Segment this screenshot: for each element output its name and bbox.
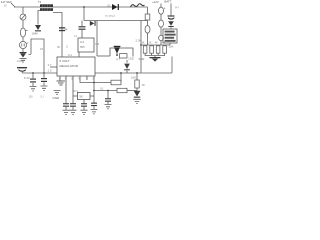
ground under D8 [20, 59, 27, 63]
svg-text:1000: 1000 [17, 60, 23, 63]
svg-text:SCR: SCR [139, 57, 145, 61]
capacitor C7 [83, 107, 85, 110]
relay contact box [120, 54, 128, 58]
diode D2 on rail y20.5 [90, 21, 96, 26]
wire secondary elbow to node [53, 13, 62, 58]
wire rail x141 [140, 21, 142, 74]
resistor R8 [143, 46, 147, 53]
pin 1 chassis ground [59, 76, 61, 81]
wire x97 drop [96, 21, 98, 57]
wire [170, 27, 172, 29]
IC U2 box A [78, 38, 94, 52]
node dot C3 [43, 72, 45, 74]
wire R2 to elbow [120, 73, 122, 83]
pin number labels [59, 77, 95, 81]
ground C6 [70, 110, 77, 114]
regulator U1 box [57, 57, 95, 76]
wire [147, 21, 149, 26]
wire R3 to diode node [127, 90, 137, 92]
ground C7 [81, 110, 88, 114]
svg-text:IN: IN [57, 45, 60, 49]
pin 2 wire down [65, 76, 67, 103]
node dot [93, 82, 95, 84]
node dot [140, 44, 142, 46]
wire [160, 27, 162, 35]
ground D4 [133, 99, 140, 103]
capacitor C3 [43, 73, 45, 86]
ground C8 [91, 110, 98, 114]
node dot [93, 90, 95, 92]
LED D3 [126, 60, 128, 73]
stub box A to regulator [78, 52, 80, 57]
stub box D to bus [169, 43, 171, 45]
node dot C2 [32, 72, 34, 74]
wire x172 to output bus [171, 57, 173, 74]
diode D4 [134, 91, 141, 98]
zener diode D7 [35, 25, 41, 31]
wire P1 left [73, 95, 78, 97]
wire [22, 20, 24, 28]
svg-text:2.2K: 2.2K [136, 39, 142, 43]
svg-text:+12V: +12V [152, 0, 159, 4]
bus resistor bottoms [145, 53, 165, 55]
svg-text:TO PIN 8: TO PIN 8 [105, 15, 116, 18]
svg-text:C: C [66, 45, 68, 49]
svg-text:100: 100 [29, 96, 34, 99]
wire [160, 41, 162, 45]
svg-text:BATT.: BATT. [165, 0, 173, 4]
resistor R9 [150, 46, 154, 53]
svg-text:10K: 10K [131, 75, 136, 79]
wire [160, 14, 162, 20]
svg-text:1K: 1K [142, 83, 146, 87]
neon lamp NE1 [19, 41, 26, 48]
terminal tick [29, 54, 32, 56]
svg-text:+: + [164, 7, 166, 11]
relay K1 outline [110, 48, 133, 57]
svg-text:IC1: IC1 [80, 40, 85, 44]
wire [22, 49, 24, 52]
capacitor C8 [93, 106, 95, 109]
inductor squiggle label [131, 4, 145, 7]
ground C9 [105, 105, 112, 109]
resistor labels above bus [142, 41, 166, 44]
svg-text:1K: 1K [142, 41, 145, 44]
svg-text:GND: GND [53, 96, 61, 100]
svg-text:R2: R2 [96, 42, 100, 46]
diode D5 in relay [114, 46, 121, 56]
junction tick secondary [65, 28, 67, 30]
battery BT1 box D [163, 29, 177, 43]
wire staple [31, 39, 44, 73]
wire [22, 37, 24, 41]
svg-text:555: 555 [80, 45, 85, 49]
capacitor C10 into box A [81, 21, 83, 39]
wire DC bus into regulator [22, 72, 57, 74]
svg-text:4K: 4K [155, 42, 158, 45]
capacitor C9 [107, 91, 109, 105]
svg-text:1.5: 1.5 [48, 68, 52, 72]
diode D6 [168, 21, 174, 27]
wire elbow from top rail [83, 7, 85, 21]
svg-text:5K: 5K [80, 95, 84, 99]
pin 4 wire to node A [80, 76, 94, 83]
wire x171 top [170, 4, 172, 16]
wire left branch down [22, 7, 24, 14]
resistor R4 [135, 80, 139, 88]
svg-text:5 VOLT: 5 VOLT [60, 59, 70, 63]
wire to R4 [136, 73, 138, 80]
wire x161 top [160, 4, 162, 8]
svg-text:T1: T1 [38, 0, 42, 4]
node dot [107, 90, 109, 92]
pin 5 stub [86, 76, 88, 80]
resistor R1 oval left branch [20, 28, 25, 37]
wire output bus y73 [95, 72, 172, 74]
ground C3 [41, 86, 48, 91]
wire [136, 88, 138, 91]
wire top right corner down [147, 7, 149, 14]
svg-text:1N40: 1N40 [32, 32, 39, 36]
wire top rail [14, 6, 148, 8]
potentiometer box P1 [78, 93, 91, 100]
fuse F1 circle left branch [20, 14, 26, 20]
node dot [136, 72, 138, 74]
resistor R2 horizontal [111, 80, 121, 85]
fuse F2 box [145, 14, 150, 20]
lamp L1 circle [159, 35, 164, 40]
ground C2 [30, 87, 37, 92]
svg-text:(+): (+) [175, 5, 179, 9]
ground arrow common [154, 56, 156, 58]
wire T1 primary return [38, 11, 40, 25]
wire node A to resistor R2 [94, 82, 111, 84]
wire [147, 33, 149, 45]
resistor R3 horizontal [117, 88, 127, 92]
wire P1 right [90, 95, 94, 97]
resistor R6 oval [159, 7, 164, 14]
transformer T1 windings [40, 4, 53, 11]
capacitor C1 electrolytic to DC bus [17, 67, 27, 72]
svg-text:LED: LED [129, 56, 134, 60]
wire stub into regulator left [50, 66, 57, 68]
svg-text:0.1: 0.1 [100, 87, 104, 91]
pin 3 wire down [72, 76, 74, 103]
ground C5 [63, 110, 70, 114]
wire rail y20.5 [84, 20, 148, 22]
wire rail x94 [93, 76, 95, 103]
bus y45 [141, 44, 170, 46]
node dot [120, 72, 122, 74]
diode D1 on top rail [112, 4, 119, 10]
svg-text:0.1: 0.1 [68, 53, 72, 57]
capacitor C6 [72, 107, 74, 110]
svg-text:10K: 10K [169, 44, 174, 48]
battery BT1 text rows [165, 31, 176, 42]
svg-text:2K: 2K [149, 41, 152, 44]
wire P1 bottom to cap [83, 100, 85, 104]
capacitor C5 [65, 107, 67, 110]
wire y56 [97, 55, 110, 57]
svg-text:4.7: 4.7 [48, 63, 52, 67]
capacitor C11 polarized [168, 15, 175, 19]
diode D8 to ground [20, 52, 27, 58]
capacitor C12 series on secondary line [59, 27, 65, 31]
small ground and label lower-left [54, 91, 61, 95]
resistor R10 [156, 46, 160, 53]
capacitor C2 [32, 73, 34, 86]
resistor R7 oval [159, 20, 164, 27]
svg-text:8K: 8K [163, 41, 166, 44]
svg-text:REGULATOR: REGULATOR [60, 64, 79, 68]
wire node B to resistor R3 [94, 90, 117, 92]
resistor R11 [163, 46, 167, 53]
resistor R5 oval [145, 26, 150, 34]
svg-text:117 VAC: 117 VAC [1, 0, 12, 4]
svg-text:6.3V: 6.3V [24, 76, 30, 80]
wire AC input diagonal [11, 3, 15, 7]
